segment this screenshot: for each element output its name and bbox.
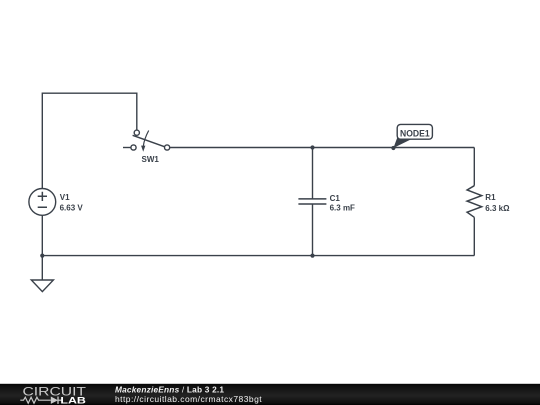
wire R1 top	[473, 148, 475, 186]
svg-text:SW1: SW1	[142, 155, 160, 164]
ground	[31, 280, 53, 292]
node NODE1 callout	[391, 124, 432, 150]
svg-text:6.3 kΩ: 6.3 kΩ	[485, 204, 510, 213]
svg-text:6.63 V: 6.63 V	[60, 204, 84, 213]
svg-text:V1: V1	[60, 193, 70, 202]
junction dot at ground node	[40, 254, 44, 258]
svg-text:http://circuitlab.com/crmatcx7: http://circuitlab.com/crmatcx783bgt	[115, 394, 262, 404]
wire SW1 common to node rail	[170, 147, 474, 149]
wire R1 bottom	[473, 217, 475, 255]
svg-text:LAB: LAB	[60, 395, 86, 405]
wire bottom rail	[42, 255, 474, 257]
wire C1 bottom	[312, 204, 314, 255]
wire ground stem	[41, 256, 43, 280]
wire C1 top	[312, 148, 314, 199]
junction dot C1 bottom	[310, 254, 314, 258]
footer title text	[115, 385, 262, 405]
footer bar	[0, 384, 540, 405]
switch SW1	[131, 130, 170, 164]
svg-text:MackenzieEnns / Lab 3 2.1: MackenzieEnns / Lab 3 2.1	[115, 385, 224, 395]
svg-text:NODE1: NODE1	[400, 128, 430, 139]
junction dot C1 top	[310, 145, 314, 149]
svg-text:R1: R1	[485, 193, 496, 202]
wire V1 bottom to ground junction	[41, 215, 43, 255]
svg-text:C1: C1	[330, 194, 341, 203]
svg-text:6.3 mF: 6.3 mF	[330, 204, 355, 213]
capacitor C1	[298, 194, 355, 212]
wire top-left from V1 up and over to SW1	[42, 93, 137, 188]
CircuitLab logo	[20, 385, 87, 405]
voltage source V1	[29, 189, 83, 216]
wire stub left of SW1 throw terminal	[123, 147, 131, 149]
resistor R1	[467, 186, 510, 218]
